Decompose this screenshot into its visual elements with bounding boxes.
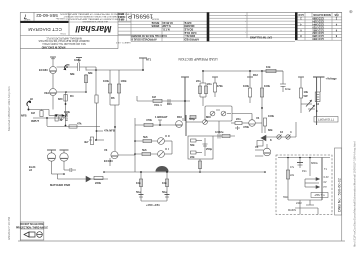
svg-text:N.T.S.: N.T.S. [162, 28, 169, 32]
svg-text:470k: 470k [243, 125, 249, 129]
svg-text:5k6: 5k6 [142, 148, 147, 152]
svg-text:Marshall: Marshall [75, 24, 111, 34]
svg-text:0.1u: 0.1u [285, 87, 291, 91]
svg-text:0V: 0V [324, 181, 327, 184]
svg-text:6.3V: 6.3V [324, 176, 329, 179]
svg-text:MODIFICATION: MODIFICATION [313, 13, 331, 16]
svg-text:22k: 22k [190, 155, 195, 159]
svg-text:VOL 1: VOL 1 [154, 103, 162, 107]
svg-text:100k: 100k [121, 79, 127, 83]
svg-text:INPUT: INPUT [31, 119, 39, 123]
svg-text:50u: 50u [136, 190, 141, 194]
svg-text:100k: 100k [103, 79, 109, 83]
svg-text:10k: 10k [304, 90, 309, 94]
svg-text:V. II: V. II [165, 134, 170, 138]
svg-text:4k7: 4k7 [84, 140, 89, 144]
svg-text:6800u: 6800u [311, 162, 319, 165]
svg-text:MK1 1DQ ENGLAND TEL (01908) 37: MK1 1DQ ENGLAND TEL (01908) 375411 [42, 42, 86, 45]
svg-text:DENBIGH ROAD BLETCHLEY MILTON: DENBIGH ROAD BLETCHLEY MILTON KEYNES [38, 39, 89, 42]
svg-text:100k: 100k [264, 84, 270, 88]
svg-text:ECO 3444: ECO 3444 [312, 23, 324, 26]
svg-text:+Voltage: +Voltage [326, 77, 338, 81]
svg-text:SHEET 1 OF 2: SHEET 1 OF 2 [115, 41, 130, 43]
svg-text:ECC83: ECC83 [104, 159, 113, 163]
svg-text:56k: 56k [190, 143, 195, 147]
svg-text:FS1: FS1 [302, 170, 307, 173]
svg-text:MODEL: MODEL [150, 18, 159, 20]
svg-text:820: 820 [58, 97, 63, 101]
svg-text:MAINS: MAINS [288, 209, 296, 212]
svg-text:R10: R10 [177, 115, 182, 119]
svg-text:7:10 PM: 7:10 PM [7, 216, 11, 228]
svg-text:16: 16 [316, 102, 319, 106]
svg-text:DRG No.: DRG No. [55, 17, 64, 19]
svg-text:SW1: SW1 [283, 196, 289, 199]
svg-text:10k: 10k [162, 181, 167, 185]
svg-text:100k: 100k [64, 110, 70, 114]
svg-text:68k: 68k [88, 71, 93, 75]
svg-text:R12: R12 [253, 73, 258, 77]
svg-text:5W: 5W [304, 94, 308, 98]
svg-text:SHEET: SHEET [23, 18, 30, 20]
svg-text:ECO: ECO [298, 13, 303, 16]
svg-text:47k NFB: 47k NFB [104, 129, 115, 133]
svg-text:1 BRIGHT: 1 BRIGHT [155, 115, 168, 119]
svg-text:HT1: HT1 [146, 58, 152, 62]
svg-text:59X-60-02: 59X-60-02 [36, 13, 58, 18]
svg-text:T.E.SET: T.E.SET [314, 193, 325, 197]
svg-text:22n: 22n [236, 117, 241, 121]
svg-text:x2: x2 [29, 168, 32, 172]
svg-text:470k: 470k [146, 118, 152, 122]
svg-text:ISS 8: ISS 8 [118, 12, 124, 14]
svg-text:V4: V4 [256, 116, 260, 120]
svg-text:100k: 100k [268, 114, 274, 118]
svg-text:R6: R6 [111, 96, 115, 100]
svg-text:82k: 82k [268, 128, 273, 132]
svg-text:ALL RIGHTS RESERVED: ALL RIGHTS RESERVED [82, 20, 108, 23]
svg-text:NFB: NFB [21, 114, 27, 118]
svg-text:470k: 470k [217, 84, 223, 88]
svg-text:MARSHALL AMPLIFICATION PLC: MARSHALL AMPLIFICATION PLC [46, 37, 82, 40]
svg-text:MIX: MIX [206, 115, 211, 119]
svg-text:ECO 3720: ECO 3720 [312, 25, 324, 28]
svg-text:220k: 220k [95, 181, 101, 185]
svg-text:250p: 250p [206, 147, 212, 151]
svg-text:file:///C|/FooCooStooSooo/Mars: file:///C|/FooCooStooSooo/Marshall/Schem… [353, 141, 357, 247]
svg-text:5k6: 5k6 [143, 135, 148, 139]
svg-text:ECO 4500: ECO 4500 [312, 37, 324, 40]
svg-text:CAT TW GILLIAMS: CAT TW GILLIAMS [250, 36, 273, 39]
svg-text:+C50 +C51: +C50 +C51 [146, 203, 160, 207]
svg-text:16: 16 [280, 130, 283, 134]
svg-text:⊕: ⊕ [349, 9, 353, 14]
svg-text:47u: 47u [290, 166, 295, 169]
svg-text:S.LAW: S.LAW [162, 24, 171, 28]
svg-text:9/9/2022: 9/9/2022 [7, 228, 11, 240]
svg-text:DRAWN: DRAWN [184, 24, 194, 28]
svg-text:Marshall 1959SLP 1994 Amp.htm: Marshall 1959SLP 1994 Amp.htm [7, 86, 11, 131]
svg-text:240V: 240V [296, 202, 302, 205]
svg-text:OF 1: OF 1 [118, 17, 124, 19]
svg-text:V. I: V. I [165, 147, 169, 151]
svg-text:MATCHED PAIR: MATCHED PAIR [50, 183, 70, 187]
svg-text:SHT 1: SHT 1 [117, 15, 124, 17]
svg-text:ECO 3104: ECO 3104 [312, 20, 324, 23]
svg-text:HT: HT [324, 186, 328, 189]
svg-text:ECO 4358: ECO 4358 [312, 34, 324, 37]
svg-text:100k: 100k [243, 84, 249, 88]
svg-text:TT EXPORT: TT EXPORT [318, 117, 334, 121]
svg-text:22n: 22n [196, 79, 201, 83]
svg-text:MADE IN ENGLAND: MADE IN ENGLAND [42, 45, 66, 48]
svg-text:V2A: V2A [44, 91, 49, 95]
svg-text:LEAD PREAMP SECTION: LEAD PREAMP SECTION [178, 57, 218, 61]
svg-text:TITLE: TITLE [60, 32, 66, 34]
svg-text:47k: 47k [77, 122, 82, 126]
svg-text:0.68u: 0.68u [74, 58, 81, 62]
svg-text:CCT DIAGRAM: CCT DIAGRAM [28, 27, 62, 32]
svg-text:APPROVED ISSUE 8: APPROVED ISSUE 8 [131, 38, 157, 42]
svg-text:MODS: MODS [151, 24, 159, 28]
svg-text:ECO 4102: ECO 4102 [312, 31, 324, 34]
svg-text:ECC83: ECC83 [39, 68, 48, 72]
svg-text:50u: 50u [162, 190, 167, 194]
svg-text:R11: R11 [167, 102, 172, 106]
svg-text:500p: 500p [189, 117, 195, 121]
svg-text:0.022u: 0.022u [215, 130, 224, 134]
svg-text:HI: HI [30, 97, 33, 101]
svg-text:ISS: ISS [334, 13, 338, 16]
svg-text:V3: V3 [104, 148, 108, 152]
svg-text:10k: 10k [136, 181, 141, 185]
svg-text:V5: V5 [255, 145, 259, 149]
svg-text:22n: 22n [207, 82, 212, 86]
svg-text:ECO 3901: ECO 3901 [312, 28, 324, 31]
svg-text:ECO 2699: ECO 2699 [312, 17, 324, 20]
svg-text:DO NOT SCALE DRG: DO NOT SCALE DRG [20, 223, 43, 226]
svg-text:PROJECTION: THIRD ANGLE: PROJECTION: THIRD ANGLE [16, 227, 48, 230]
svg-text:10k: 10k [266, 65, 271, 69]
svg-text:APPROVED: APPROVED [184, 38, 199, 42]
svg-text:DNB No : 59X-60-02: DNB No : 59X-60-02 [338, 178, 342, 212]
svg-text:R4: R4 [70, 94, 74, 98]
svg-text:68k: 68k [70, 72, 75, 76]
